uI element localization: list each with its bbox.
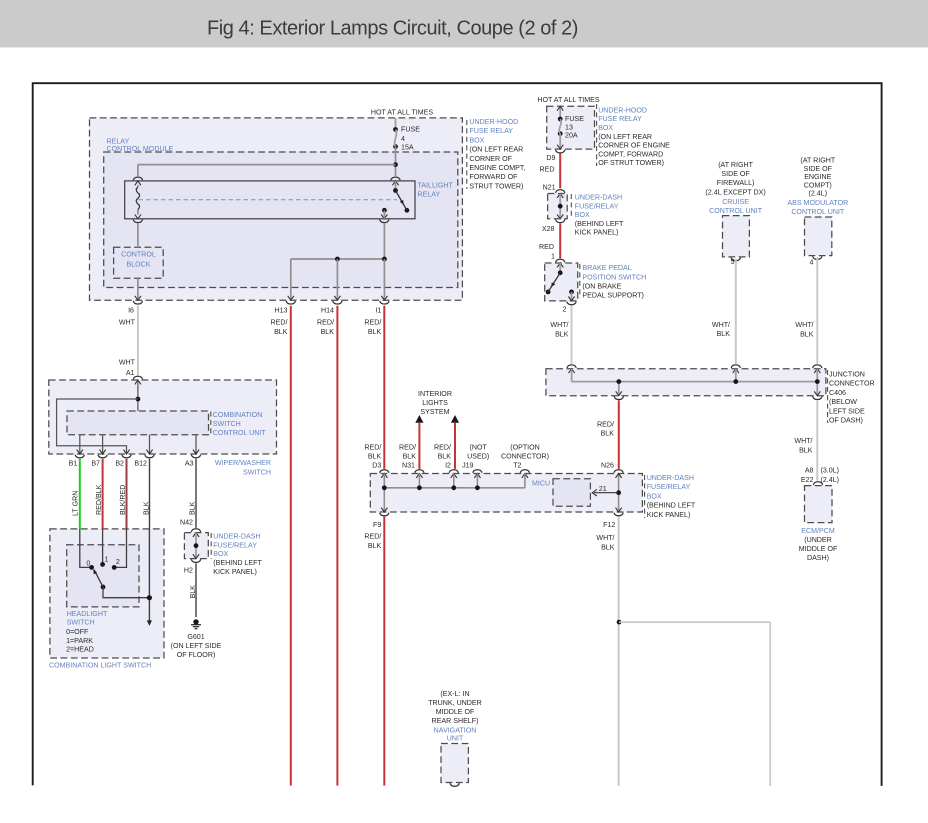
svg-text:UNDER-DASH: UNDER-DASH bbox=[647, 474, 694, 482]
svg-text:1: 1 bbox=[551, 253, 555, 261]
svg-text:BRAKE PEDAL: BRAKE PEDAL bbox=[582, 264, 631, 272]
svg-text:21: 21 bbox=[599, 485, 607, 493]
svg-text:(OPTION: (OPTION bbox=[510, 444, 540, 452]
svg-text:0: 0 bbox=[86, 559, 90, 567]
svg-text:(2.4L EXCEPT DX): (2.4L EXCEPT DX) bbox=[705, 188, 765, 196]
svg-text:C406: C406 bbox=[829, 389, 846, 397]
svg-text:FUSE: FUSE bbox=[401, 126, 420, 134]
svg-text:Fig 4: Exterior Lamps Circuit,: Fig 4: Exterior Lamps Circuit, Coupe (2 … bbox=[207, 18, 578, 40]
svg-text:LT GRN: LT GRN bbox=[72, 491, 80, 516]
svg-text:WHT/: WHT/ bbox=[794, 437, 812, 445]
svg-text:BLK: BLK bbox=[321, 328, 335, 336]
svg-text:UNDER-HOOD: UNDER-HOOD bbox=[469, 118, 518, 126]
svg-text:BLK: BLK bbox=[717, 330, 731, 338]
svg-text:ENGINE COMPT,: ENGINE COMPT, bbox=[469, 164, 525, 172]
svg-text:(EX-L: IN: (EX-L: IN bbox=[440, 690, 469, 698]
svg-text:WHT/: WHT/ bbox=[712, 321, 730, 329]
svg-text:I2: I2 bbox=[445, 462, 451, 470]
svg-text:(2.4L): (2.4L) bbox=[821, 476, 840, 484]
svg-text:KICK PANEL): KICK PANEL) bbox=[647, 511, 691, 519]
svg-text:WHT/: WHT/ bbox=[550, 321, 568, 329]
svg-text:CORNER OF ENGINE: CORNER OF ENGINE bbox=[598, 142, 670, 150]
svg-text:BLK: BLK bbox=[274, 328, 288, 336]
svg-text:WIPER/WASHER: WIPER/WASHER bbox=[215, 459, 271, 467]
svg-text:1=PARK: 1=PARK bbox=[66, 637, 93, 645]
svg-text:UNDER-HOOD: UNDER-HOOD bbox=[598, 106, 647, 114]
svg-text:OF FLOOR): OF FLOOR) bbox=[177, 651, 216, 659]
svg-text:(ON LEFT REAR: (ON LEFT REAR bbox=[469, 146, 523, 154]
svg-text:(NOT: (NOT bbox=[470, 444, 488, 452]
svg-text:MICU: MICU bbox=[532, 480, 550, 488]
svg-text:2: 2 bbox=[116, 558, 120, 566]
svg-text:KICK PANEL): KICK PANEL) bbox=[575, 229, 619, 237]
svg-text:FUSE/RELAY: FUSE/RELAY bbox=[647, 483, 691, 491]
svg-text:HOT AT ALL TIMES: HOT AT ALL TIMES bbox=[371, 108, 434, 116]
svg-text:LEFT SIDE: LEFT SIDE bbox=[829, 407, 865, 415]
svg-text:SWITCH: SWITCH bbox=[67, 619, 95, 627]
svg-text:JUNCTION: JUNCTION bbox=[829, 371, 865, 379]
svg-text:CONTROL MODULE: CONTROL MODULE bbox=[107, 145, 174, 153]
svg-text:A1: A1 bbox=[126, 369, 135, 377]
svg-text:BLK: BLK bbox=[368, 328, 382, 336]
svg-text:FUSE RELAY: FUSE RELAY bbox=[469, 127, 513, 135]
svg-text:(ON BRAKE: (ON BRAKE bbox=[582, 282, 621, 290]
svg-text:BOX: BOX bbox=[647, 492, 662, 500]
svg-text:RED/: RED/ bbox=[434, 444, 451, 452]
svg-text:BLK: BLK bbox=[799, 446, 813, 454]
svg-text:BLK: BLK bbox=[800, 330, 814, 338]
svg-text:BLK: BLK bbox=[368, 453, 382, 461]
svg-text:UNDER-DASH: UNDER-DASH bbox=[575, 194, 622, 202]
svg-text:ECM/PCM: ECM/PCM bbox=[801, 527, 835, 535]
svg-text:BLK: BLK bbox=[368, 542, 382, 550]
svg-text:20A: 20A bbox=[565, 131, 578, 139]
svg-text:(UNDER: (UNDER bbox=[804, 536, 832, 544]
svg-text:H13: H13 bbox=[274, 307, 287, 315]
svg-text:BLK: BLK bbox=[403, 453, 417, 461]
svg-text:N26: N26 bbox=[601, 462, 614, 470]
svg-text:OF STRUT TOWER): OF STRUT TOWER) bbox=[598, 159, 664, 167]
svg-text:E22: E22 bbox=[801, 476, 814, 484]
svg-text:(ON LEFT SIDE: (ON LEFT SIDE bbox=[171, 642, 222, 650]
svg-text:CONTROL UNIT: CONTROL UNIT bbox=[213, 429, 267, 437]
svg-text:(2.4L): (2.4L) bbox=[809, 189, 828, 197]
svg-text:RED/: RED/ bbox=[364, 319, 381, 327]
svg-text:(BEHIND LEFT: (BEHIND LEFT bbox=[647, 502, 696, 510]
svg-text:TRUNK, UNDER: TRUNK, UNDER bbox=[428, 699, 482, 707]
svg-text:B12: B12 bbox=[134, 460, 147, 468]
svg-text:N21: N21 bbox=[543, 184, 556, 192]
svg-text:CONNECTOR): CONNECTOR) bbox=[501, 453, 549, 461]
svg-text:H2: H2 bbox=[184, 566, 193, 574]
svg-text:BLK: BLK bbox=[438, 453, 452, 461]
svg-text:A3: A3 bbox=[185, 460, 194, 468]
svg-text:D3: D3 bbox=[372, 462, 381, 470]
svg-text:MIDDLE OF: MIDDLE OF bbox=[436, 708, 475, 716]
svg-text:BLK: BLK bbox=[189, 585, 197, 599]
svg-text:CONNECTOR: CONNECTOR bbox=[829, 380, 875, 388]
svg-text:FUSE RELAY: FUSE RELAY bbox=[598, 115, 642, 123]
svg-text:BLK: BLK bbox=[555, 330, 569, 338]
svg-text:5: 5 bbox=[731, 258, 735, 266]
svg-text:PEDAL SUPPORT): PEDAL SUPPORT) bbox=[582, 291, 644, 299]
svg-text:RED/: RED/ bbox=[364, 444, 381, 452]
svg-text:STRUT TOWER): STRUT TOWER) bbox=[469, 182, 523, 190]
svg-text:T2: T2 bbox=[513, 462, 521, 470]
svg-text:COMBINATION: COMBINATION bbox=[213, 411, 263, 419]
svg-text:B7: B7 bbox=[91, 460, 100, 468]
svg-text:1: 1 bbox=[105, 555, 109, 563]
svg-text:CONTROL UNIT: CONTROL UNIT bbox=[791, 208, 845, 216]
svg-text:NAVIGATION: NAVIGATION bbox=[434, 726, 477, 734]
svg-text:G601: G601 bbox=[187, 633, 204, 641]
svg-text:CRUISE: CRUISE bbox=[722, 198, 749, 206]
svg-text:BLK: BLK bbox=[601, 430, 615, 438]
svg-text:RED: RED bbox=[539, 243, 554, 251]
svg-text:SWITCH: SWITCH bbox=[213, 420, 241, 428]
svg-text:RED/: RED/ bbox=[317, 319, 334, 327]
svg-text:HEADLIGHT: HEADLIGHT bbox=[67, 610, 108, 618]
svg-text:MIDDLE OF: MIDDLE OF bbox=[799, 545, 838, 553]
svg-text:UNIT: UNIT bbox=[447, 735, 464, 743]
svg-text:13: 13 bbox=[565, 124, 573, 132]
svg-text:RED/: RED/ bbox=[399, 444, 416, 452]
svg-text:X28: X28 bbox=[542, 225, 555, 233]
svg-text:BOX: BOX bbox=[469, 136, 484, 144]
svg-text:BLK/RED: BLK/RED bbox=[119, 485, 127, 515]
svg-text:TAILLIGHT: TAILLIGHT bbox=[418, 182, 454, 190]
svg-text:N31: N31 bbox=[402, 462, 415, 470]
svg-text:OF DASH): OF DASH) bbox=[829, 417, 863, 425]
svg-text:2=HEAD: 2=HEAD bbox=[66, 646, 94, 654]
svg-text:FUSE/RELAY: FUSE/RELAY bbox=[213, 541, 257, 549]
svg-text:CONTROL UNIT: CONTROL UNIT bbox=[709, 207, 763, 215]
svg-text:F12: F12 bbox=[603, 521, 615, 529]
svg-text:I6: I6 bbox=[128, 307, 134, 315]
svg-text:BLOCK: BLOCK bbox=[126, 260, 150, 268]
svg-text:DASH): DASH) bbox=[807, 554, 829, 562]
svg-text:FUSE: FUSE bbox=[565, 115, 584, 123]
svg-text:BOX: BOX bbox=[598, 124, 613, 132]
svg-text:J19: J19 bbox=[462, 462, 473, 470]
svg-text:RELAY: RELAY bbox=[418, 191, 441, 199]
svg-text:FIREWALL): FIREWALL) bbox=[717, 179, 755, 187]
svg-text:ABS MODULATOR: ABS MODULATOR bbox=[787, 199, 848, 207]
svg-text:BOX: BOX bbox=[213, 550, 228, 558]
svg-text:F9: F9 bbox=[373, 521, 381, 529]
svg-text:COMPT): COMPT) bbox=[804, 181, 832, 189]
svg-text:FORWARD OF: FORWARD OF bbox=[469, 173, 518, 181]
svg-text:CORNER OF: CORNER OF bbox=[469, 155, 512, 163]
svg-text:WHT: WHT bbox=[119, 319, 136, 327]
svg-text:N42: N42 bbox=[180, 518, 193, 526]
svg-text:ENGINE: ENGINE bbox=[804, 173, 831, 181]
svg-text:D9: D9 bbox=[546, 154, 555, 162]
svg-text:KICK PANEL): KICK PANEL) bbox=[213, 568, 257, 576]
svg-text:CONTROL: CONTROL bbox=[121, 250, 156, 258]
svg-text:RED/: RED/ bbox=[364, 533, 381, 541]
svg-text:BLK: BLK bbox=[188, 501, 196, 515]
svg-text:RED/BLK: RED/BLK bbox=[95, 484, 103, 515]
svg-text:(3.0L): (3.0L) bbox=[821, 467, 840, 475]
svg-text:B2: B2 bbox=[115, 460, 124, 468]
svg-text:I1: I1 bbox=[375, 307, 381, 315]
svg-text:0=OFF: 0=OFF bbox=[66, 628, 89, 636]
svg-text:(BEHIND LEFT: (BEHIND LEFT bbox=[575, 220, 624, 228]
svg-text:RED/: RED/ bbox=[597, 420, 614, 428]
svg-text:UNDER-DASH: UNDER-DASH bbox=[213, 533, 260, 541]
svg-text:HOT AT ALL TIMES: HOT AT ALL TIMES bbox=[537, 96, 600, 104]
svg-text:(BELOW: (BELOW bbox=[829, 398, 857, 406]
svg-text:B1: B1 bbox=[69, 460, 78, 468]
svg-text:BLK: BLK bbox=[601, 543, 615, 551]
svg-text:BLK: BLK bbox=[142, 501, 150, 515]
svg-text:(AT RIGHT: (AT RIGHT bbox=[800, 157, 835, 165]
svg-text:RED/: RED/ bbox=[271, 319, 288, 327]
svg-text:4: 4 bbox=[810, 259, 814, 267]
svg-text:(ON LEFT REAR: (ON LEFT REAR bbox=[598, 133, 652, 141]
svg-text:(BEHIND LEFT: (BEHIND LEFT bbox=[213, 559, 262, 567]
svg-text:2: 2 bbox=[563, 305, 567, 313]
svg-text:4: 4 bbox=[401, 135, 405, 143]
svg-text:COMPT, FORWARD: COMPT, FORWARD bbox=[598, 150, 663, 158]
svg-text:INTERIOR: INTERIOR bbox=[418, 390, 452, 398]
svg-text:LIGHTS: LIGHTS bbox=[422, 399, 448, 407]
svg-text:A8: A8 bbox=[805, 467, 814, 475]
svg-text:RED: RED bbox=[540, 166, 555, 174]
svg-text:SIDE OF: SIDE OF bbox=[804, 165, 833, 173]
svg-text:USED): USED) bbox=[467, 453, 489, 461]
svg-text:SIDE OF: SIDE OF bbox=[721, 170, 750, 178]
svg-text:POSITION SWITCH: POSITION SWITCH bbox=[582, 273, 646, 281]
svg-text:COMBINATION LIGHT SWITCH: COMBINATION LIGHT SWITCH bbox=[49, 662, 151, 670]
svg-text:WHT: WHT bbox=[119, 359, 136, 367]
svg-text:FUSE/RELAY: FUSE/RELAY bbox=[575, 202, 619, 210]
svg-text:WHT/: WHT/ bbox=[795, 321, 813, 329]
svg-text:REAR SHELF): REAR SHELF) bbox=[432, 717, 479, 725]
svg-text:BOX: BOX bbox=[575, 211, 590, 219]
svg-text:WHT/: WHT/ bbox=[596, 534, 614, 542]
svg-text:15A: 15A bbox=[401, 144, 414, 152]
svg-text:SYSTEM: SYSTEM bbox=[420, 408, 449, 416]
svg-text:(AT RIGHT: (AT RIGHT bbox=[718, 161, 753, 169]
svg-text:H14: H14 bbox=[321, 307, 334, 315]
svg-text:SWITCH: SWITCH bbox=[243, 468, 271, 476]
